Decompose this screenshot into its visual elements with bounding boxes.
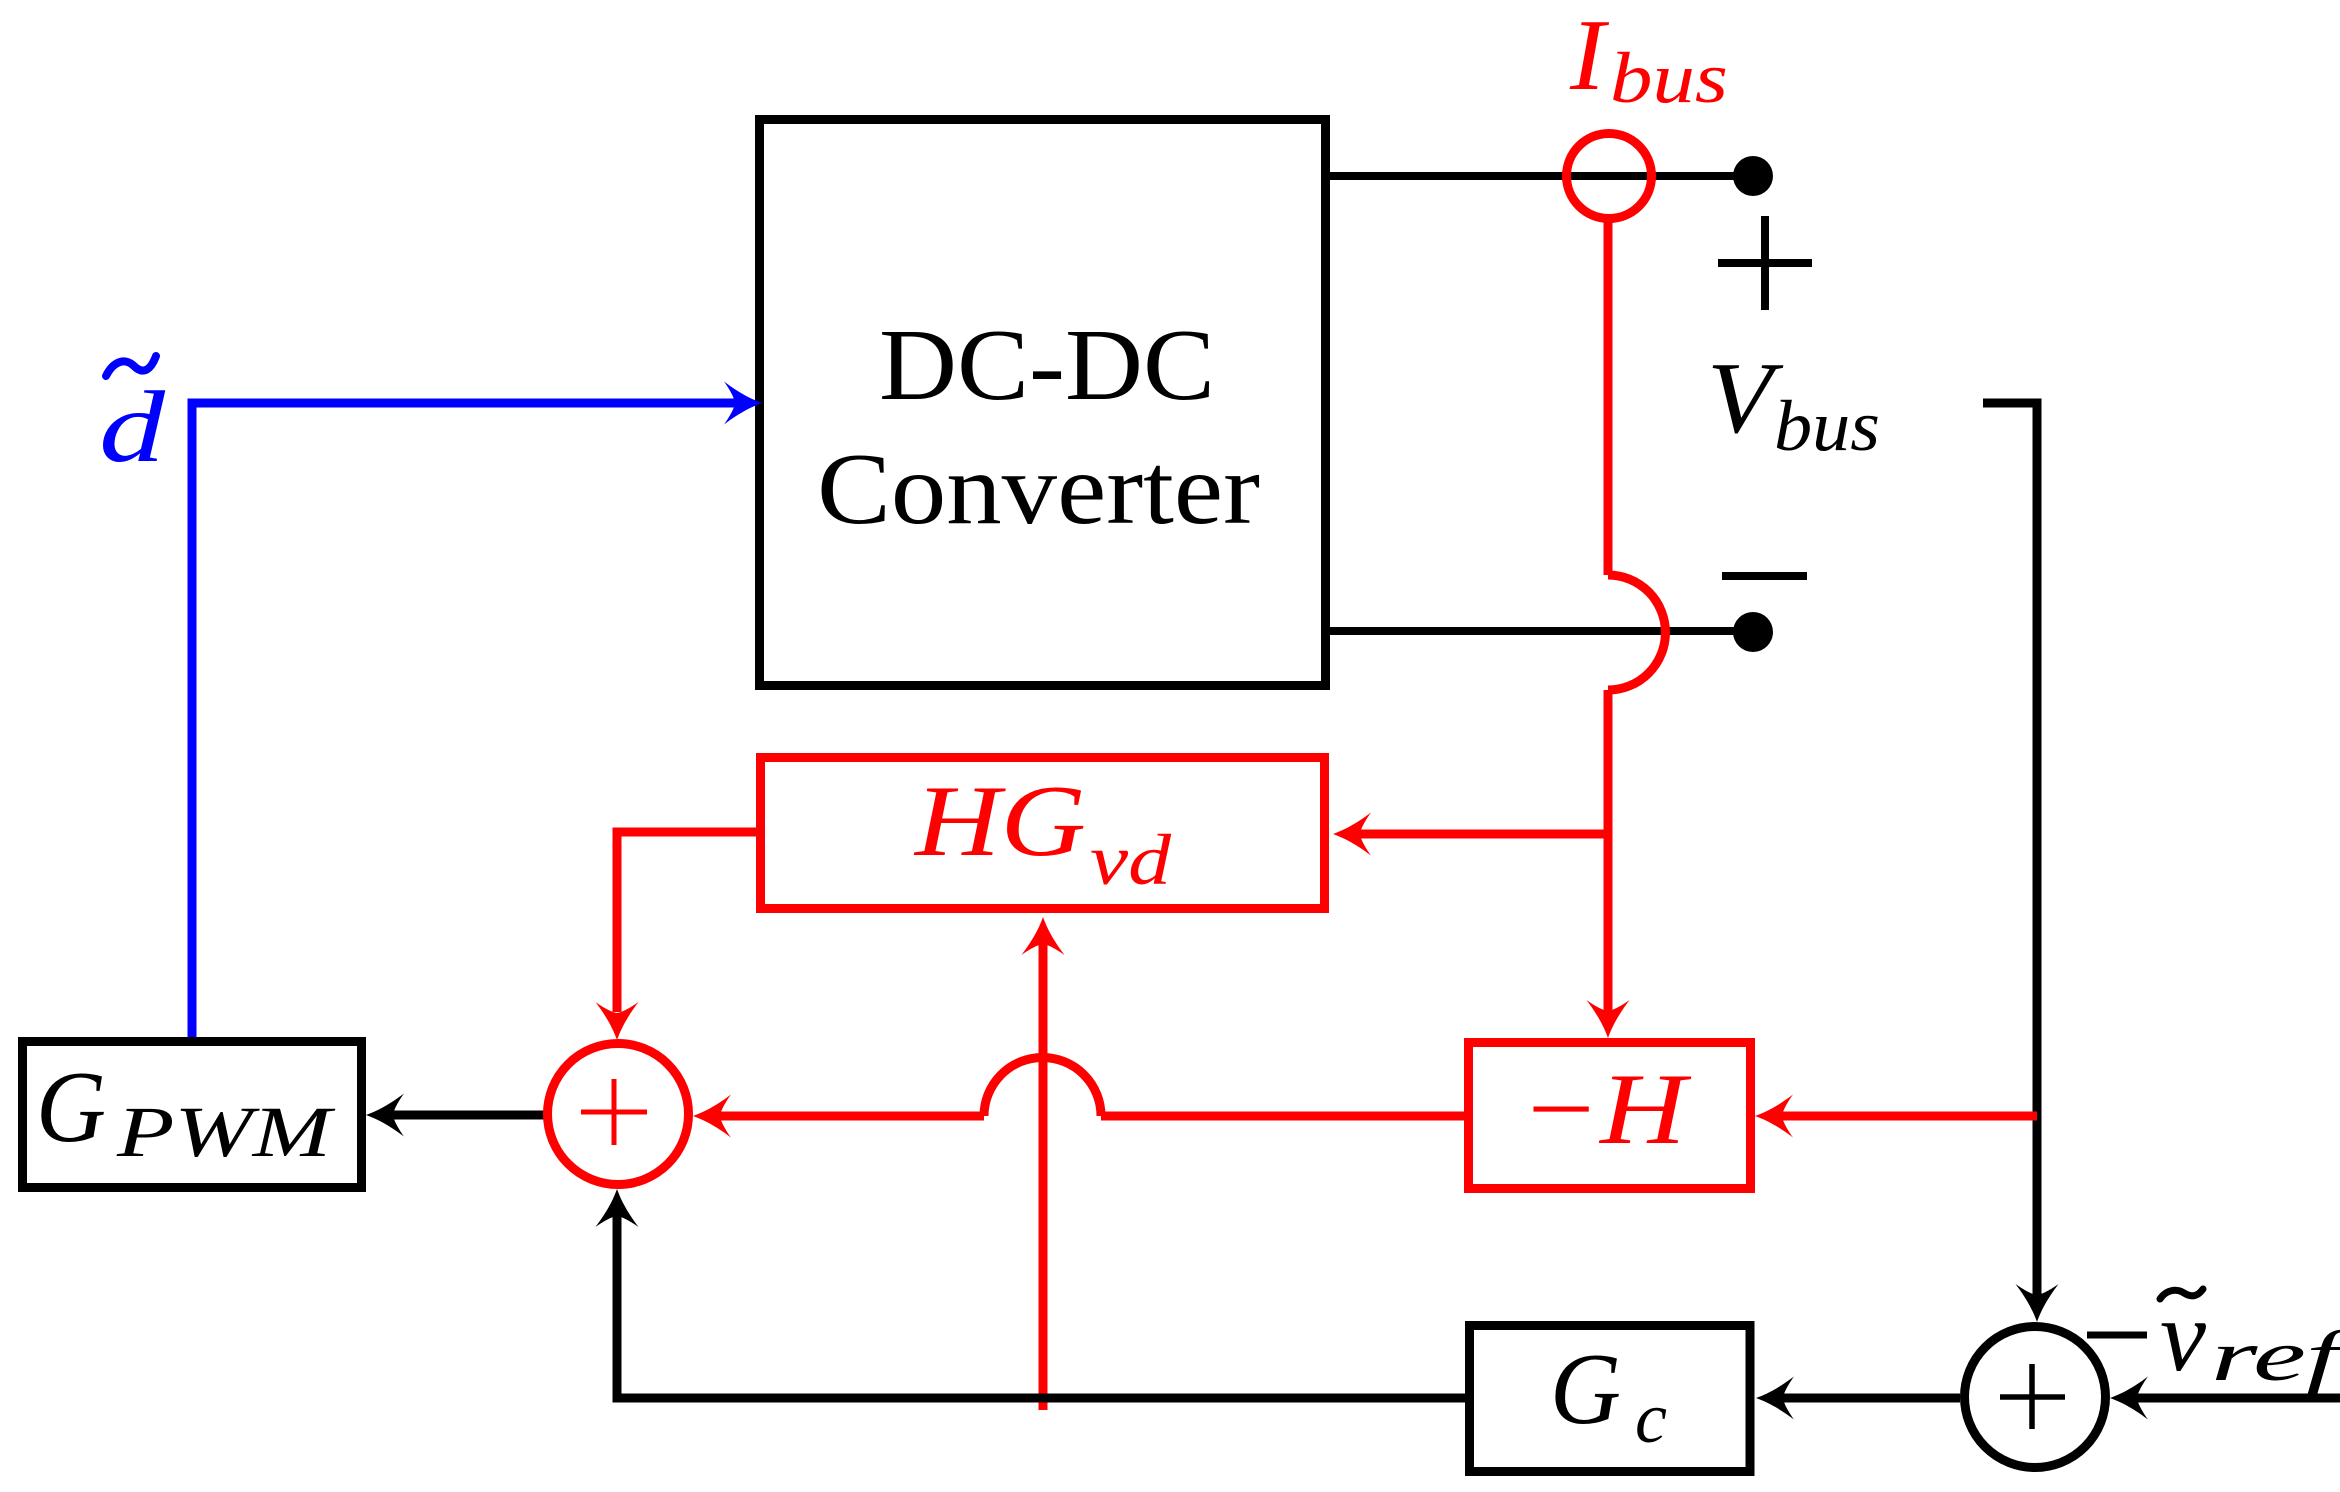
arrowhead: black left into black summer right xyxy=(2110,1377,2148,1420)
wire: black summer to Gc xyxy=(1780,1394,1960,1403)
arrowhead: red down into -H xyxy=(1587,1000,1630,1038)
arrowhead: red down into red summer top xyxy=(596,1002,639,1040)
svg-text:c: c xyxy=(1635,1378,1667,1458)
wire: blue duty-cycle d~ into converter xyxy=(192,403,738,1037)
svg-text:DC-DC: DC-DC xyxy=(879,309,1215,422)
svg-text:V: V xyxy=(1707,342,1784,455)
summing junction: black summer xyxy=(1965,1327,2106,1468)
wire: Gc output to red summer xyxy=(617,1213,1465,1398)
terminal dot + xyxy=(1733,156,1773,196)
block: GPWM xyxy=(23,1042,362,1188)
arrowhead: red up into HGvd bottom xyxy=(1022,917,1065,955)
svg-text:d: d xyxy=(99,371,166,484)
svg-text:bus: bus xyxy=(1610,38,1728,118)
wire: Vbus feedback down to summer xyxy=(1983,403,2037,1298)
svg-text:ref: ref xyxy=(2211,1316,2340,1396)
svg-text:G: G xyxy=(1550,1333,1621,1446)
svg-text:bus: bus xyxy=(1774,386,1880,466)
arrowhead: red left into red summer right xyxy=(693,1095,731,1138)
wire: red drop to -H block xyxy=(1604,690,1613,1014)
wire: converter bottom output to - terminal xyxy=(1329,627,1753,635)
wire: hop arc over vertical red line xyxy=(984,1058,1101,1117)
svg-text:HG: HG xyxy=(913,765,1086,878)
svg-text:PWM: PWM xyxy=(116,1092,337,1172)
wire: HGvd output to red summer xyxy=(617,832,756,1012)
arrowhead: black up into red summer bottom xyxy=(596,1189,639,1227)
arrowhead: black down into black summer top xyxy=(2016,1284,2059,1322)
wire: red vertical branch up into HGvd (under black) xyxy=(1039,941,1048,1410)
svg-text:I: I xyxy=(1569,0,1609,112)
svg-text:Converter: Converter xyxy=(817,433,1260,546)
block: HGvd xyxy=(761,758,1325,909)
svg-text:−H: −H xyxy=(1520,1053,1692,1166)
wire: -H output with hop to red summer xyxy=(1101,1112,1464,1121)
svg-text:G: G xyxy=(36,1051,106,1164)
block: -H xyxy=(1469,1043,1751,1189)
block: Gc xyxy=(1470,1326,1751,1472)
current sensor circle Ibus xyxy=(1567,134,1652,219)
wire: Vbus line tee to -H input xyxy=(1779,1112,2037,1121)
svg-text:vd: vd xyxy=(1090,820,1172,900)
arrowhead: black left into GPWM right edge xyxy=(366,1094,404,1137)
arrowhead: red left into HGvd right edge xyxy=(1333,813,1371,856)
minus sign at vref summer xyxy=(2087,1332,2147,1339)
wire: red summer to GPWM xyxy=(390,1111,544,1120)
arrowhead: black left into Gc right edge xyxy=(1756,1377,1794,1420)
wire: red Ibus sense drop from sensor circle xyxy=(1604,221,1613,575)
wire: red hop over bottom output wire xyxy=(1608,575,1665,690)
wire: converter top output to + terminal xyxy=(1329,172,1753,180)
arrowhead: red left into -H right edge xyxy=(1755,1095,1793,1138)
wire: red tee into HGvd right side xyxy=(1357,830,1608,839)
plus sign at Vbus terminal xyxy=(1718,216,1812,310)
block: DC-DC Converter xyxy=(760,120,1326,686)
arrowhead: blue into converter xyxy=(724,382,762,425)
wire: vref input from right edge xyxy=(2135,1394,2340,1403)
summing junction: red summer xyxy=(548,1044,689,1185)
terminal dot - xyxy=(1733,612,1773,652)
wire: continuation to red summer xyxy=(714,1112,984,1121)
minus sign at Vbus terminal xyxy=(1722,572,1807,580)
